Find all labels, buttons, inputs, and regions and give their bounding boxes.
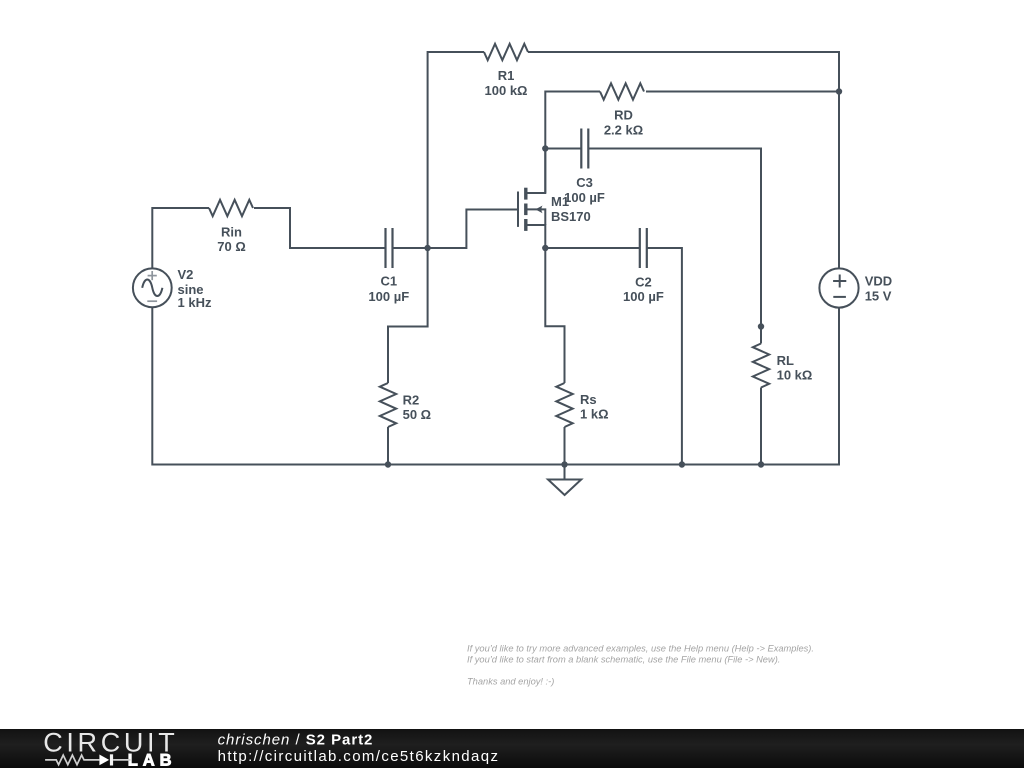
wire RL to ground rail <box>760 388 762 465</box>
svg-text:chrischen / S2 Part2: chrischen / S2 Part2 <box>218 732 374 749</box>
voltage source V2 <box>133 268 172 307</box>
svg-text:C2: C2 <box>635 275 652 290</box>
svg-text:R1: R1 <box>498 68 515 83</box>
svg-text:Rs: Rs <box>580 392 597 407</box>
resistor Rin <box>209 200 253 216</box>
svg-text:10 kΩ: 10 kΩ <box>777 368 813 383</box>
resistor Rs <box>556 383 572 427</box>
wire top rail right <box>528 52 839 268</box>
node A junction dot <box>424 245 430 251</box>
svg-text:50 Ω: 50 Ω <box>403 407 432 422</box>
resistor RD <box>600 83 644 99</box>
resistor R1 <box>484 44 528 60</box>
svg-text:1 kHz: 1 kHz <box>178 295 212 310</box>
node Rs bottom junction dot <box>561 461 567 467</box>
node RL top junction dot <box>758 323 764 329</box>
svg-text:C1: C1 <box>380 274 397 289</box>
resistor R2 <box>380 383 396 427</box>
wire RD row left stub <box>545 92 600 194</box>
svg-text:100 µF: 100 µF <box>564 190 605 205</box>
svg-text:15 V: 15 V <box>865 289 892 304</box>
svg-text:If you’d like to start from a: If you’d like to start from a blank sche… <box>467 655 780 665</box>
svg-text:If you’d like to try more adva: If you’d like to try more advanced examp… <box>467 643 814 653</box>
svg-text:VDD: VDD <box>865 274 892 289</box>
svg-text:RL: RL <box>777 353 794 368</box>
svg-text:2.2 kΩ: 2.2 kΩ <box>604 122 643 137</box>
svg-text:Rin: Rin <box>221 225 242 240</box>
wire V2 down left rail bottom <box>152 307 839 464</box>
svg-text:C3: C3 <box>576 175 593 190</box>
logo circuit doodle <box>45 754 130 765</box>
hint text <box>467 643 814 686</box>
wire R2 to ground rail <box>387 427 389 465</box>
wire source node to Rs <box>545 248 564 383</box>
wire RL <box>760 327 762 344</box>
node R2 bottom junction dot <box>385 461 391 467</box>
svg-text:http://circuitlab.com/ce5t6kzk: http://circuitlab.com/ce5t6kzkndaqz <box>218 748 500 765</box>
svg-text:100 µF: 100 µF <box>623 289 664 304</box>
node source junction dot <box>542 245 548 251</box>
wire C1 to node A <box>393 247 428 249</box>
resistor RL <box>753 344 769 388</box>
svg-text:R2: R2 <box>403 392 420 407</box>
svg-text:V2: V2 <box>178 267 194 282</box>
svg-text:70 Ω: 70 Ω <box>217 239 246 254</box>
wire Rin to C1 <box>254 208 386 248</box>
wire C3 left lead <box>545 148 581 150</box>
transistor M1 BS170 <box>518 149 545 249</box>
svg-text:100 kΩ: 100 kΩ <box>485 83 528 98</box>
wire node A down to R2 <box>388 248 428 383</box>
wire gate feed <box>428 210 518 249</box>
node RL bottom junction dot <box>758 461 764 467</box>
node C2 bottom junction dot <box>679 461 685 467</box>
svg-text:LAB: LAB <box>128 752 177 768</box>
capacitor C2 <box>640 228 647 268</box>
ground <box>548 465 581 496</box>
wire C2 down to ground rail <box>647 248 682 465</box>
wire RD row right <box>646 91 839 93</box>
voltage source VDD <box>819 268 858 307</box>
svg-text:100 µF: 100 µF <box>368 289 409 304</box>
svg-text:RD: RD <box>614 107 633 122</box>
capacitor C1 <box>386 228 393 268</box>
svg-text:BS170: BS170 <box>551 209 591 224</box>
wire Rs to ground rail <box>564 427 566 465</box>
capacitor C3 <box>581 129 588 169</box>
svg-text:M1: M1 <box>551 194 569 209</box>
node VDD top junction dot <box>836 88 842 94</box>
wire V2 to Rin <box>152 208 209 268</box>
svg-text:1 kΩ: 1 kΩ <box>580 406 609 421</box>
wire C3 right to RL top <box>588 149 761 327</box>
wire top rail left <box>428 52 484 248</box>
wire source node to C2 <box>545 247 640 249</box>
svg-text:Thanks and enjoy! :-): Thanks and enjoy! :-) <box>467 677 554 687</box>
node drain junction dot <box>542 145 548 151</box>
